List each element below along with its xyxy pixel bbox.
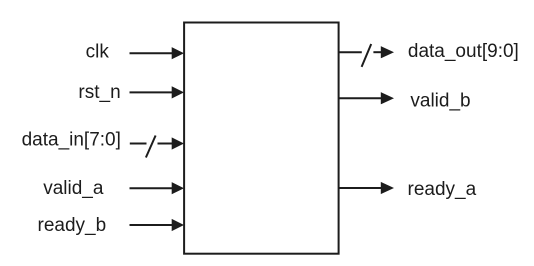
svg-text:data_out[9:0]: data_out[9:0] bbox=[408, 41, 519, 62]
wire data_out segment 1 bbox=[339, 51, 362, 53]
bus slash data_in bbox=[146, 136, 156, 158]
svg-text:data_in[7:0]: data_in[7:0] bbox=[22, 130, 121, 151]
svg-text:valid_a: valid_a bbox=[43, 178, 104, 199]
arrowhead data_out output bbox=[381, 46, 394, 58]
bus slash data_out bbox=[362, 44, 372, 67]
wire clk bbox=[130, 52, 173, 54]
wire data_in segment 1 bbox=[130, 143, 147, 145]
block U1 (module body rectangle) bbox=[184, 23, 339, 254]
svg-text:ready_b: ready_b bbox=[38, 215, 107, 236]
wire data_out segment 2 bbox=[373, 51, 381, 53]
wire data_in segment 2 bbox=[158, 143, 173, 145]
arrowhead valid_b output bbox=[381, 92, 394, 104]
arrowhead ready_b input bbox=[172, 219, 184, 231]
arrowhead clk input bbox=[172, 47, 184, 59]
svg-text:clk: clk bbox=[86, 42, 110, 63]
wire ready_a bbox=[339, 187, 382, 189]
svg-text:ready_a: ready_a bbox=[408, 179, 477, 200]
arrowhead data_in input bbox=[172, 137, 184, 149]
svg-text:rst_n: rst_n bbox=[78, 82, 120, 103]
arrowhead rst_n input bbox=[172, 86, 184, 98]
wire rst_n bbox=[130, 91, 173, 93]
wire valid_b bbox=[339, 97, 382, 99]
arrowhead ready_a output bbox=[381, 182, 394, 194]
wire ready_b bbox=[130, 224, 173, 226]
wire valid_a bbox=[130, 187, 173, 189]
svg-text:valid_b: valid_b bbox=[410, 91, 470, 112]
arrowhead valid_a input bbox=[172, 182, 184, 194]
